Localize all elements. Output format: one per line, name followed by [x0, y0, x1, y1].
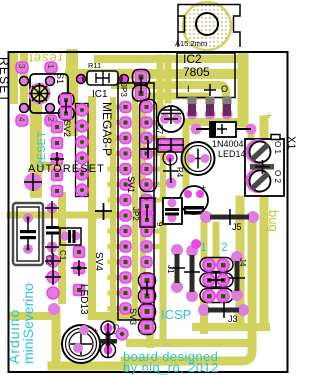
- svg-text:IC2: IC2: [183, 52, 202, 66]
- svg-text:J5: J5: [232, 222, 242, 232]
- svg-text:7805: 7805: [183, 65, 210, 79]
- svg-text:by niq_ro, 2012: by niq_ro, 2012: [123, 360, 219, 375]
- svg-text:reset: reset: [28, 51, 62, 66]
- svg-text:IC1: IC1: [92, 89, 108, 100]
- svg-text:LED13: LED13: [78, 284, 89, 315]
- svg-text:+: +: [201, 183, 206, 193]
- svg-text:+: +: [93, 326, 98, 336]
- svg-text:1N4004: 1N4004: [212, 139, 244, 149]
- svg-text:J1: J1: [166, 265, 175, 274]
- svg-text:9: 9: [155, 222, 164, 227]
- svg-text:JP3: JP3: [119, 83, 128, 97]
- svg-text:C7: C7: [155, 124, 164, 135]
- svg-text:AUTORESET: AUTORESET: [28, 163, 105, 175]
- svg-text:ICSP: ICSP: [161, 307, 191, 322]
- svg-text:O: O: [221, 84, 228, 94]
- svg-text:MEGA8-P: MEGA8-P: [100, 102, 114, 156]
- svg-text:3: 3: [17, 64, 26, 69]
- svg-text:O 1: O 1: [273, 141, 282, 154]
- svg-text:2: 2: [221, 240, 228, 254]
- svg-text:SV1: SV1: [126, 176, 136, 193]
- svg-text:J3: J3: [228, 314, 238, 324]
- svg-text:bug: bug: [266, 210, 281, 232]
- svg-text:RESET: RESET: [0, 57, 11, 103]
- svg-text:+: +: [266, 110, 272, 122]
- svg-text:I: I: [187, 84, 190, 94]
- svg-text:C2: C2: [44, 255, 53, 266]
- svg-text:O 2: O 2: [273, 170, 282, 183]
- svg-text:SV2: SV2: [62, 120, 72, 137]
- svg-text:SV3: SV3: [128, 308, 138, 325]
- svg-text:4: 4: [17, 117, 26, 122]
- svg-text:C1: C1: [58, 250, 67, 261]
- svg-text:J4: J4: [238, 258, 247, 267]
- svg-text:1: 1: [200, 240, 207, 254]
- svg-text:R11: R11: [88, 61, 101, 70]
- svg-text:S1: S1: [55, 73, 65, 84]
- svg-text:A15.2mm: A15.2mm: [175, 39, 207, 48]
- svg-text:SV4: SV4: [93, 252, 104, 271]
- svg-text:JP2: JP2: [131, 207, 140, 221]
- svg-text:miniSeverino: miniSeverino: [20, 283, 36, 364]
- svg-text:X1: X1: [285, 136, 297, 149]
- svg-text:LED14: LED14: [218, 149, 246, 159]
- svg-text:R4: R4: [175, 167, 184, 178]
